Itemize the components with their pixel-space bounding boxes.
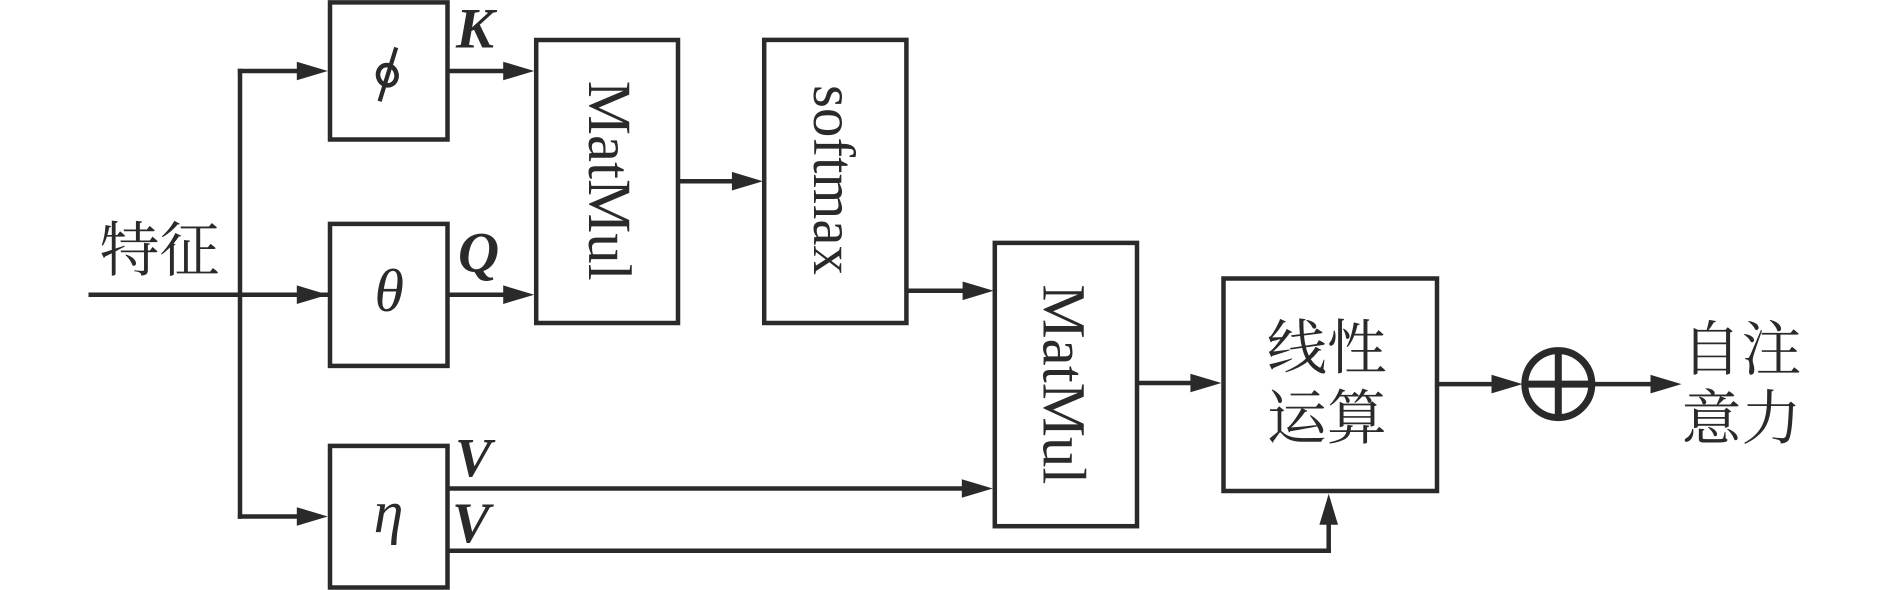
wire input 特征	[89, 292, 330, 297]
svg-text:Q: Q	[458, 222, 499, 285]
svg-text:MatMul: MatMul	[575, 81, 642, 281]
box linear-op 线性运算	[1224, 279, 1438, 492]
arrow MatMul-2 to linear-op	[1137, 374, 1221, 393]
box softmax	[764, 40, 906, 323]
wire V1 eta to MatMul-2	[448, 479, 993, 498]
box theta (projection)	[330, 224, 448, 366]
label 特征 (feature input)	[101, 221, 218, 276]
svg-text:K: K	[455, 0, 498, 61]
box MatMul-2	[995, 243, 1137, 526]
svg-text:η: η	[374, 479, 404, 545]
adder circle-plus	[1522, 348, 1594, 420]
label 意力 (self-atten. line2)	[1685, 388, 1796, 444]
arrow adder to output	[1594, 375, 1681, 394]
svg-text:MatMul: MatMul	[1030, 284, 1097, 484]
box phi (projection)	[330, 2, 448, 139]
wire Q theta to MatMul-1	[448, 285, 535, 304]
wire V2 eta to linear-op (horizontal+vertical)	[448, 494, 1339, 553]
arrow linear-op to adder	[1437, 375, 1523, 394]
label 线性 (linear)	[1269, 318, 1386, 373]
svg-text:softmax: softmax	[801, 85, 867, 275]
arrow branch to phi	[238, 62, 328, 81]
label 自注 (self-atten. line1)	[1694, 320, 1800, 375]
wire branch vertical	[238, 69, 243, 519]
arrow branch to eta	[238, 507, 328, 526]
box eta (projection)	[330, 446, 448, 588]
box MatMul-1	[536, 40, 678, 323]
arrow softmax to MatMul-2	[906, 282, 993, 301]
arrow input to theta	[238, 285, 328, 304]
svg-text:V: V	[452, 492, 494, 555]
label phi (ellipse+slash)	[375, 48, 399, 102]
label 运算 (operation)	[1269, 388, 1384, 443]
svg-text:V: V	[455, 427, 496, 488]
wire K phi to MatMul-1	[448, 62, 535, 81]
svg-text:θ: θ	[375, 258, 404, 324]
arrow MatMul-1 to softmax	[678, 172, 763, 191]
